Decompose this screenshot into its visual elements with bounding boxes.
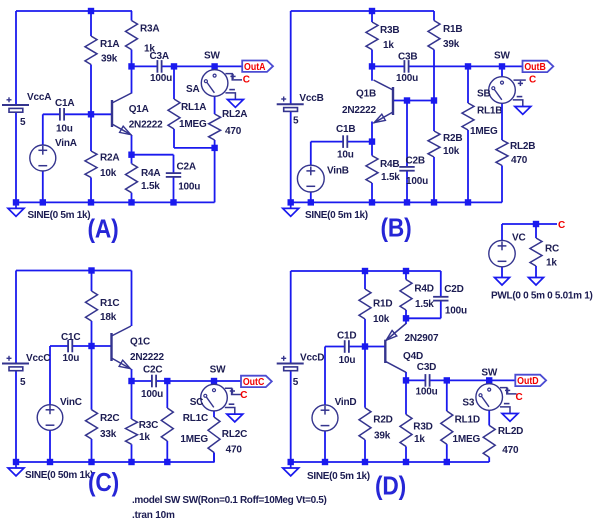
wire: RL1D bottom lead (446, 444, 448, 462)
wire: R3B top lead (371, 11, 373, 22)
output port OutC (241, 376, 272, 387)
wire: RL2A bottom lead (214, 140, 216, 148)
svg-text:C3D: C3D (417, 362, 436, 373)
svg-text:VccD: VccD (300, 352, 324, 363)
wire: R2A top lead (90, 114, 92, 151)
wire: RC top lead (535, 224, 537, 238)
wire: R3A top lead (131, 11, 133, 21)
svg-text:10k: 10k (373, 314, 390, 325)
junction D RL1D top (444, 377, 450, 383)
wire: R3A bottom lead (131, 50, 133, 67)
svg-text:OutC: OutC (243, 377, 265, 388)
wire: Q1C base wire (92, 345, 112, 347)
svg-text:C1C: C1C (61, 332, 80, 343)
resistor R3B (366, 22, 378, 50)
svg-text:C: C (243, 74, 250, 85)
wire: collector to C3A (132, 65, 158, 67)
svg-text:VinD: VinD (335, 397, 357, 408)
wire: VinC bottom lead (49, 430, 51, 462)
wire: Q1B base wire (393, 100, 434, 102)
svg-text:OutB: OutB (524, 62, 546, 73)
wire: Q1A emitter wire (131, 135, 133, 155)
svg-text:10k: 10k (443, 146, 460, 157)
junction D base node (362, 343, 368, 349)
wire: RL2D bottom lead (488, 457, 490, 462)
ground RC (529, 278, 544, 286)
capacitor C1B (342, 135, 344, 148)
resistor R3C (126, 419, 138, 444)
junction A R2A-gnd (88, 199, 94, 205)
svg-text:R1B: R1B (443, 24, 462, 35)
wire: C left rail lower (15, 370, 17, 462)
svg-text:2N2222: 2N2222 (130, 352, 164, 363)
junction D collector node (403, 377, 409, 383)
wire: Q1B collector wire (371, 66, 373, 80)
resistor RC (530, 238, 542, 266)
svg-text:C3A: C3A (150, 51, 169, 62)
svg-text:R3C: R3C (139, 420, 158, 431)
junction D emitter node (403, 315, 409, 321)
resistor R1B (428, 21, 440, 50)
resistor R2A (85, 151, 97, 178)
svg-text:VccB: VccB (299, 93, 323, 104)
resistor RL1B (462, 103, 474, 130)
wire: C2D bottom lead (440, 301, 442, 319)
svg-text:1MEG: 1MEG (453, 434, 481, 445)
wire: R2C top lead (91, 346, 93, 410)
svg-text:100u: 100u (141, 389, 163, 400)
junction A C2A-gnd (170, 199, 176, 205)
junction D rail-left (288, 459, 294, 465)
svg-text:(B): (B) (381, 213, 412, 243)
resistor R4A (126, 164, 138, 193)
wire: C1B right lead (347, 141, 372, 143)
switch SB (501, 66, 503, 76)
junction D R3D-gnd (403, 459, 409, 465)
capacitor C1C (67, 340, 69, 353)
resistor RL2C (208, 417, 220, 453)
junction A collector node (128, 63, 134, 69)
svg-text:100u: 100u (396, 73, 418, 84)
svg-text:R2A: R2A (100, 153, 119, 164)
wire: C1D left lead (325, 346, 345, 348)
svg-text:VccC: VccC (26, 353, 50, 364)
svg-text:RL1C: RL1C (183, 413, 208, 424)
resistor R2C (86, 410, 98, 439)
svg-text:10u: 10u (56, 124, 73, 135)
wire: B Vcc top rail (291, 10, 434, 12)
svg-text:R2C: R2C (100, 413, 119, 424)
svg-text:R1C: R1C (100, 298, 119, 309)
wire: C2B top lead (406, 101, 408, 167)
ground B (290, 202, 292, 208)
capacitor C3B (403, 60, 405, 73)
capacitor C1D (344, 340, 346, 353)
output port OutB (523, 61, 554, 72)
wire: RL1A top lead (173, 66, 175, 99)
ground C (15, 462, 17, 468)
wire: emitter node jog (406, 317, 441, 319)
wire: Q1C collector wire (131, 271, 133, 327)
ground A (15, 202, 17, 208)
wire: RL1D top lead (446, 380, 448, 411)
svg-text:2N2222: 2N2222 (342, 105, 376, 116)
svg-text:100u: 100u (406, 176, 428, 187)
svg-text:SINE(0 5m 1k): SINE(0 5m 1k) (305, 210, 368, 221)
svg-text:OutD: OutD (517, 376, 539, 387)
svg-text:R3A: R3A (140, 24, 159, 35)
svg-text:RL2D: RL2D (498, 426, 523, 437)
capacitor C2A (166, 172, 181, 174)
wire: R4B bottom lead (371, 183, 373, 202)
junction D R2D-gnd (362, 459, 368, 465)
wire: collector to C3D (406, 379, 425, 381)
svg-text:1k: 1k (546, 258, 557, 269)
junction A rail-left (13, 199, 19, 205)
wire: RC bottom lead (535, 266, 537, 278)
wire: C2B bottom lead (406, 171, 408, 203)
ground SC control (227, 414, 243, 422)
resistor R2D (359, 408, 371, 440)
ground D (290, 462, 292, 468)
wire: RL1B top lead (467, 66, 469, 103)
resistor RL2B (496, 140, 508, 166)
wire: A left rail upper (15, 11, 17, 105)
voltage source VinD (312, 405, 338, 431)
junction A base node (88, 111, 94, 117)
svg-text:100u: 100u (445, 306, 467, 317)
wire: R4A top lead (131, 155, 133, 164)
wire: VinB top lead (310, 142, 312, 166)
svg-text:5: 5 (293, 116, 299, 127)
svg-text:RL2A: RL2A (222, 109, 247, 120)
svg-text:2N2907: 2N2907 (405, 333, 439, 344)
wire: RL1A bottom lead (173, 129, 175, 148)
junction A emitter node (128, 152, 134, 158)
switch SC (213, 381, 215, 384)
svg-text:(D): (D) (375, 470, 406, 500)
svg-text:C1D: C1D (337, 330, 356, 341)
wire: C1A right lead (64, 113, 91, 115)
resistor RL1C (161, 408, 173, 441)
ground SB control (515, 107, 531, 115)
junction C base node (88, 343, 94, 349)
svg-text:Q1A: Q1A (129, 104, 149, 115)
wire: Q1B emitter wire (371, 122, 373, 142)
voltage source VccB (battery) (277, 103, 304, 105)
svg-text:RC: RC (545, 244, 559, 255)
junction C R2C-gnd (88, 459, 94, 465)
svg-text:.tran 10m: .tran 10m (132, 510, 175, 519)
wire: C left rail upper (15, 271, 17, 364)
transistor Q1C (2N2222 NPN) (110, 333, 112, 361)
svg-text:5: 5 (20, 377, 26, 388)
wire: R4B top lead (371, 142, 373, 156)
svg-text:1MEG: 1MEG (470, 126, 498, 137)
capacitor C2B (399, 166, 414, 168)
svg-text:Q4D: Q4D (403, 351, 423, 362)
junction B VinB-gnd (308, 199, 314, 205)
wire: Q1A base wire (91, 113, 112, 115)
voltage source VccC (battery) (2, 363, 29, 365)
capacitor C3A (156, 60, 158, 73)
resistor R4D (400, 280, 412, 311)
svg-text:R3D: R3D (413, 422, 432, 433)
svg-text:1MEG: 1MEG (179, 119, 207, 130)
junction B C2B-gnd (404, 199, 410, 205)
svg-text:PWL(0 0 5m 0 5.01m 1): PWL(0 0 5m 0 5.01m 1) (491, 291, 593, 302)
svg-text:C2C: C2C (143, 365, 162, 376)
wire: C1D right lead (349, 346, 365, 348)
junction A VinA-gnd (40, 199, 46, 205)
wire: VinA bottom lead (42, 171, 44, 203)
resistor RL2A (209, 114, 221, 140)
junction B R4B-gnd (369, 199, 375, 205)
wire: R2B top lead (433, 101, 435, 132)
transistor Q1A (2N2222 NPN) (111, 100, 113, 127)
svg-text:470: 470 (225, 126, 242, 137)
wire: C3A to OutA (162, 65, 243, 67)
wire: collector to C3B (372, 65, 404, 67)
wire: C1A left lead (43, 113, 60, 115)
voltage source VinA (30, 145, 56, 171)
wire: Q4D emitter wire (405, 318, 407, 324)
wire: R1D top lead (364, 271, 366, 289)
wire: VC top lead (501, 224, 503, 240)
wire: RL1A jog (174, 147, 215, 149)
voltage source VC (489, 240, 515, 266)
wire: RL1B bottom lead (467, 130, 469, 202)
voltage source VinC (37, 405, 63, 431)
resistor RL1A (168, 99, 180, 129)
junction B base-R2B (431, 97, 437, 103)
wire: B left rail lower (290, 110, 292, 202)
wire: A ground rail (16, 201, 215, 203)
junction D Vcc-R4D (403, 268, 409, 274)
ground S3 control (502, 414, 518, 422)
resistor R1C (86, 291, 98, 321)
svg-text:SB: SB (477, 89, 491, 100)
svg-text:10k: 10k (100, 168, 117, 179)
wire: emitter to C2C (132, 380, 152, 382)
wire: R2B bottom lead (433, 157, 435, 202)
wire: R4D top lead (405, 271, 407, 280)
svg-text:5: 5 (293, 377, 299, 388)
svg-text:39k: 39k (101, 54, 118, 65)
svg-text:SINE(0 5m 1k): SINE(0 5m 1k) (28, 210, 91, 221)
wire: C3B to OutB (409, 65, 523, 67)
capacitor C1A (59, 108, 61, 121)
wire: R3D top lead (405, 380, 407, 414)
wire: R3B bottom lead (371, 50, 373, 67)
wire: VinA top lead (42, 114, 44, 145)
wire: C2A bottom lead (173, 177, 175, 203)
wire: R4D bottom lead (405, 310, 407, 318)
svg-text:SA: SA (186, 84, 200, 95)
wire: Q4D base wire (365, 346, 385, 348)
wire: VinD bottom lead (324, 431, 326, 462)
resistor R4B (366, 156, 378, 183)
switch S3 (488, 380, 490, 383)
resistor R3A (126, 21, 138, 50)
svg-text:OutA: OutA (244, 62, 266, 73)
wire: R3C bottom lead (131, 444, 133, 462)
junction VC-RC (533, 221, 539, 227)
wire: VinD top lead (324, 347, 326, 405)
wire: R2D top lead (364, 347, 366, 408)
svg-text:SW: SW (494, 51, 510, 62)
wire: R2A bottom lead (90, 178, 92, 203)
resistor RL2D (483, 425, 495, 457)
wire: Q1C emitter wire (131, 369, 133, 381)
svg-text:1.5k: 1.5k (141, 181, 160, 192)
junction A SW top (211, 63, 217, 69)
ground VC (495, 278, 510, 286)
junction B Vcc-R3B (369, 8, 375, 14)
junction C RL1C-gnd (164, 459, 170, 465)
wire: R1A top lead (90, 11, 92, 36)
wire: A Vcc top rail (16, 10, 132, 12)
junction B rail-left (288, 199, 294, 205)
svg-text:R2D: R2D (373, 414, 392, 425)
wire: C1B left lead (311, 141, 343, 143)
wire: R3D bottom lead (405, 447, 407, 463)
junction D Vcc-R1D (362, 268, 368, 274)
wire: R1B top lead (433, 11, 435, 21)
svg-text:18k: 18k (100, 312, 117, 323)
svg-text:C1B: C1B (336, 124, 355, 135)
wire: C2A top lead (173, 155, 175, 173)
wire: B left rail upper (290, 11, 292, 104)
svg-text:C1A: C1A (55, 98, 74, 109)
junction B emitter node (369, 138, 375, 144)
junction A RL1A top (171, 63, 177, 69)
resistor R1D (359, 289, 371, 319)
wire: R1D bottom lead (364, 319, 366, 347)
wire: RL1C bottom lead (166, 441, 168, 462)
junction C rail-left (13, 459, 19, 465)
wire: D ground rail (291, 461, 490, 463)
wire: R2D bottom lead (364, 440, 366, 462)
wire: R1C top lead (91, 271, 93, 292)
junction D VinD-gnd (322, 459, 328, 465)
junction B RL1B-gnd (465, 199, 471, 205)
capacitor C2C (151, 375, 153, 388)
svg-text:.model SW SW(Ron=0.1 Roff=10Me: .model SW SW(Ron=0.1 Roff=10Meg Vt=0.5) (132, 495, 326, 506)
svg-text:C: C (240, 390, 247, 401)
svg-text:1.5k: 1.5k (415, 299, 434, 310)
wire: D left rail lower (290, 370, 292, 462)
svg-text:R4D: R4D (414, 283, 433, 294)
svg-text:10u: 10u (337, 150, 354, 161)
svg-text:C2B: C2B (406, 156, 425, 167)
svg-text:RL1D: RL1D (455, 415, 480, 426)
svg-text:R3B: R3B (380, 25, 399, 36)
junction A R4A-gnd (128, 199, 134, 205)
svg-text:SINE(0 5m 1k): SINE(0 5m 1k) (307, 471, 370, 482)
svg-text:SW: SW (481, 368, 497, 379)
svg-text:100u: 100u (178, 181, 200, 192)
wire: C3D to OutD (430, 379, 516, 381)
svg-text:RL1A: RL1A (181, 102, 206, 113)
junction C Vcc-R1C (88, 267, 94, 273)
wire: C2D top lead (440, 271, 442, 297)
svg-text:39k: 39k (443, 39, 460, 50)
capacitor C2D (433, 296, 448, 298)
svg-text:(A): (A) (88, 214, 119, 244)
svg-text:33k: 33k (100, 429, 117, 440)
svg-text:VinB: VinB (327, 166, 349, 177)
svg-text:470: 470 (511, 155, 528, 166)
junction C SW top (211, 378, 217, 384)
wire: C ground rail (16, 461, 215, 463)
svg-text:S3: S3 (462, 398, 474, 409)
svg-text:R2B: R2B (443, 133, 462, 144)
svg-text:1k: 1k (414, 434, 425, 445)
wire: C load return (213, 453, 215, 463)
svg-text:1k: 1k (383, 40, 394, 51)
wire: R3C top lead (131, 381, 133, 419)
junction A Vcc-R1A (88, 8, 94, 14)
wire: VinC top lead (49, 346, 51, 405)
svg-text:470: 470 (502, 445, 519, 456)
wire: A left rail lower (15, 111, 17, 202)
wire: RL1C top lead (166, 381, 168, 408)
voltage source VccD (battery) (277, 363, 304, 365)
capacitor C3D (424, 374, 426, 387)
svg-text:VC: VC (512, 232, 526, 243)
junction C R3C-gnd (128, 459, 134, 465)
wire: RL2B bottom lead (501, 166, 503, 203)
wire: RL2C bottom lead (213, 453, 215, 463)
wire: R1C bottom lead (91, 321, 93, 346)
resistor R1A (85, 36, 97, 65)
svg-text:1.5k: 1.5k (381, 172, 400, 183)
svg-text:100u: 100u (416, 387, 438, 398)
svg-text:R4B: R4B (380, 159, 399, 170)
junction A RL1A-RL2A (211, 145, 217, 151)
wire: C1C left lead (50, 345, 68, 347)
wire: C1C right lead (72, 345, 91, 347)
svg-text:10u: 10u (63, 353, 80, 364)
junction B RL1B top (465, 63, 471, 69)
svg-text:VinC: VinC (60, 397, 82, 408)
svg-text:R1A: R1A (100, 39, 119, 50)
svg-text:C: C (516, 392, 523, 403)
svg-text:Q1B: Q1B (356, 89, 376, 100)
svg-text:VccA: VccA (27, 92, 51, 103)
wire: VC bottom lead (501, 267, 503, 278)
junction D RL1D-gnd (444, 459, 450, 465)
junction C emitter node (128, 378, 134, 384)
resistor R3D (400, 414, 412, 446)
svg-text:470: 470 (226, 444, 243, 455)
svg-text:C2A: C2A (177, 161, 196, 172)
junction B SW top (499, 63, 505, 69)
svg-text:VinA: VinA (55, 138, 77, 149)
svg-text:39k: 39k (374, 430, 391, 441)
svg-text:1MEG: 1MEG (180, 434, 208, 445)
transistor Q1B (2N2222 NPN mirrored) (392, 87, 394, 115)
junction C VinC-gnd (47, 459, 53, 465)
wire: emitter to C2A (132, 154, 174, 156)
junction B collector node (369, 63, 375, 69)
transistor Q4D (2N2907 PNP) (384, 340, 386, 363)
wire: R4A bottom lead (131, 193, 133, 203)
wire: Q4D collector wire (405, 372, 407, 380)
svg-text:SINE(0 50m 1k): SINE(0 50m 1k) (25, 470, 93, 481)
voltage source VccA (battery) (2, 104, 29, 106)
